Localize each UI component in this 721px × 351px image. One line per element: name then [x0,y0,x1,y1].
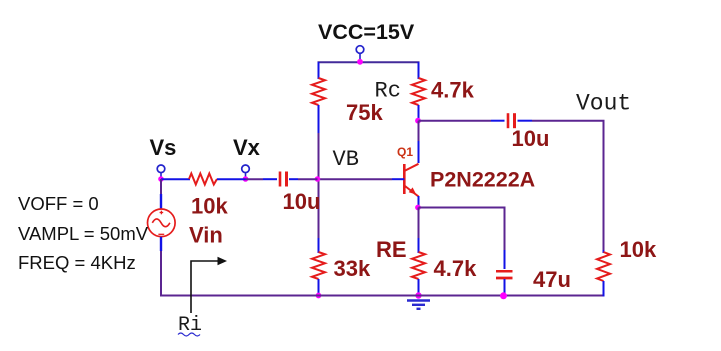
wire blue above 33k [318,238,320,253]
junction dot VCC [357,59,363,65]
wire Vs down purple stub [160,179,162,194]
svg-text:4.7k: 4.7k [431,78,475,103]
junction dot 33k bottom [316,293,322,299]
svg-text:10k: 10k [620,237,657,262]
svg-text:4.7k: 4.7k [434,256,478,281]
wire Cout blue right [518,120,533,122]
svg-text:10u: 10u [512,126,550,151]
junction dot ground [415,292,421,298]
label 4.7k top [431,78,475,103]
wire Rin to Vx blue [217,178,246,180]
wire blue to collector [418,141,420,163]
wire blue below CE [504,279,506,296]
wire blue below RE [418,279,420,296]
wire blue to Cin [263,178,277,180]
wire emitter node purple right [419,208,505,251]
svg-text:Vout: Vout [576,91,631,117]
label 47u [533,267,571,292]
label P2N2222A [430,168,535,192]
label 75k [346,100,383,125]
wire left column upper blue [318,62,320,79]
svg-text:VAMPL = 50mV: VAMPL = 50mV [18,223,149,244]
source Vin sine [148,209,176,237]
svg-text:33k: 33k [334,256,371,281]
wire purple collector stub [418,121,420,141]
node Vx circle [242,165,250,177]
label 33k [334,256,371,281]
label Vin [189,223,223,248]
wire Vx purple [246,178,264,180]
wire Vs to Rin blue [161,178,190,180]
wire Vs down blue [160,194,162,210]
wire base purple [319,178,393,180]
svg-text:Rc: Rc [375,79,401,104]
label Vs [150,135,177,160]
svg-text:VCC=15V: VCC=15V [318,20,415,44]
label Vout [576,91,631,117]
svg-text:FREQ = 4KHz: FREQ = 4KHz [18,252,136,273]
wire blue to Cout [491,120,505,122]
resistor Rc 4.7k [412,78,425,105]
wire Cin to VB purple [298,178,318,180]
resistor RE 4.7k [412,252,425,279]
label 4.7k bottom [434,256,478,281]
wire blue below Rc [418,105,420,121]
junction dot emitter node [415,205,421,211]
label VB [333,147,359,172]
junction dot VB [315,176,321,182]
label FREQ [18,252,136,273]
svg-text:P2N2222A: P2N2222A [430,168,535,192]
label Q1 [397,145,413,159]
capacitor Cin 10u [280,172,287,187]
junction dot Vx [243,176,249,182]
label Vx [233,135,261,160]
bottom rail wire [160,295,605,297]
node VCC circle [356,46,364,60]
label 10k load [620,237,657,262]
svg-text:75k: 75k [346,100,383,125]
label 10u output [512,126,550,151]
svg-text:VB: VB [333,147,359,172]
svg-text:10k: 10k [191,194,228,219]
wire left column purple to VB [318,133,320,179]
wire left column blue below 75k [318,105,320,133]
capacitor Cout 10u [508,113,515,128]
svg-text:47u: 47u [533,267,571,292]
label Rc [375,79,401,104]
wire base blue [392,178,404,180]
svg-text:Vin: Vin [189,223,223,248]
transistor Q1 [404,164,418,197]
wire left column purple VB to 33k [318,179,320,238]
label VCC=15V [318,20,415,44]
wire blue above CE [504,250,506,269]
wire blue below RL [603,281,605,297]
label 10k input [191,194,228,219]
wire Cout purple to corner [532,121,604,250]
svg-text:VOFF = 0: VOFF = 0 [18,193,99,214]
resistor Rin 10k [189,174,217,185]
resistor 33k [312,252,325,279]
svg-text:Vx: Vx [233,135,261,160]
svg-text:Q1: Q1 [397,145,413,159]
wire emitter blue [418,196,420,208]
wire blue above RL [603,250,605,253]
wire collector node purple right [419,120,492,122]
junction dot collector node [415,118,421,124]
svg-text:Vs: Vs [150,135,177,160]
resistor 75k [312,78,325,105]
svg-text:10u: 10u [283,189,321,214]
junction dot CE bottom [500,292,507,299]
arrow Ri [191,257,227,313]
top supply rail wire [318,61,420,63]
junction dot Vs [158,176,164,182]
wire below source purple [160,251,162,297]
label 10u input [283,189,321,214]
wire blue above RE [418,238,420,253]
label RE [376,237,407,262]
resistor RL 10k [597,252,610,281]
label VAMPL [18,223,149,244]
node Vs circle [157,165,165,177]
ground [407,301,430,309]
capacitor CE 47u [496,271,513,278]
svg-text:RE: RE [376,237,407,262]
wire purple emitter to RE [418,208,420,239]
wire blue below 33k [318,279,320,296]
label Ri [178,314,202,337]
wire right column upper blue [418,62,420,79]
wire below source blue [160,237,162,251]
label VOFF [18,193,99,214]
wire Cin to VB blue [289,178,298,180]
